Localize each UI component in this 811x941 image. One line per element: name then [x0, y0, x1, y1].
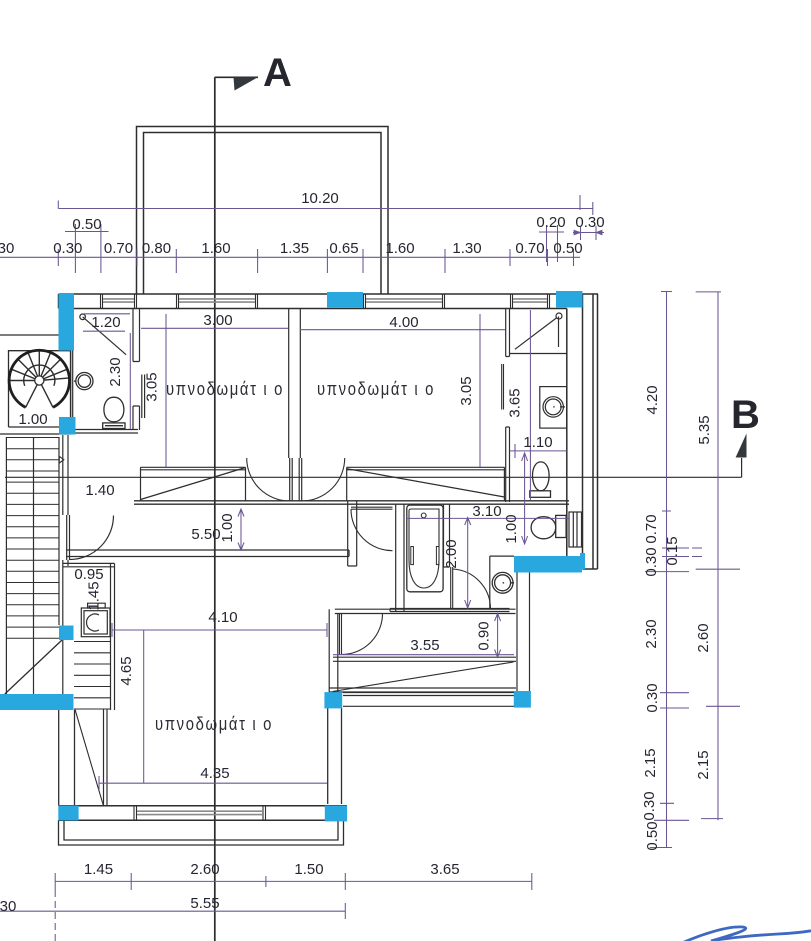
column C8 band	[0, 694, 74, 710]
spiral stair box	[0, 351, 71, 434]
section flag A	[234, 77, 258, 90]
svg-text:2.60: 2.60	[190, 861, 219, 878]
spiral stair inner arc	[24, 365, 55, 386]
window W1 ticks	[101, 294, 137, 309]
right dim line2	[717, 292, 719, 821]
svg-text:4.00: 4.00	[389, 314, 418, 331]
svg-text:υπνοδωμάτ ι ο: υπνοδωμάτ ι ο	[166, 379, 284, 399]
svg-text:4.20: 4.20	[644, 385, 661, 414]
dim 2.00 vline with arrows	[465, 518, 471, 609]
svg-text:1.20: 1.20	[91, 314, 120, 331]
dim 4.65 vline	[143, 630, 145, 783]
svg-text:1.50: 1.50	[294, 861, 323, 878]
svg-text:0.50: 0.50	[644, 821, 661, 850]
upper bathroom shower	[510, 313, 568, 354]
svg-text:30: 30	[0, 240, 14, 257]
svg-text:3.10: 3.10	[472, 503, 501, 520]
window W3 glazing	[366, 299, 442, 302]
dim 0.50 top line	[65, 231, 109, 233]
tub bathroom left wall	[396, 504, 404, 611]
svg-text:1.45: 1.45	[84, 861, 113, 878]
dim 4.10 line	[112, 623, 327, 637]
column C6 band	[514, 556, 582, 573]
dim 2.30 vline	[129, 333, 131, 429]
dim 0.20 line	[539, 225, 564, 262]
column C4	[59, 417, 76, 435]
bathroom1 bottom wall	[72, 430, 138, 434]
hall right wall	[348, 501, 357, 566]
svg-text:30: 30	[0, 898, 16, 915]
dim 3.00 line	[141, 327, 288, 329]
svg-text:10.20: 10.20	[301, 190, 339, 207]
svg-text:3.05: 3.05	[458, 376, 475, 405]
svg-text:2.30: 2.30	[643, 619, 660, 648]
dim 3.55 line	[333, 654, 514, 656]
window W2 glazing	[179, 299, 255, 302]
window W4 glazing	[513, 299, 547, 302]
dim 3.05 bedroom2 vline	[479, 314, 481, 467]
main top dim ticks	[58, 249, 573, 273]
bedroom3 right wall	[328, 708, 342, 804]
spiral stair outer ring	[9, 350, 69, 407]
tub partition right	[444, 504, 450, 567]
room355 bottom wall	[333, 657, 516, 661]
column C12	[325, 806, 347, 822]
svg-text:1.40: 1.40	[85, 482, 114, 499]
spiral stair newel	[35, 376, 44, 385]
bedroom3 bottom wall	[59, 806, 348, 821]
svg-text:3.65: 3.65	[430, 861, 459, 878]
svg-text:5.50: 5.50	[191, 526, 220, 543]
svg-text:3.00: 3.00	[203, 312, 232, 329]
closet2 with diagonal	[347, 467, 505, 501]
svg-text:1.60: 1.60	[201, 240, 230, 257]
svg-text:2.15: 2.15	[695, 750, 712, 779]
svg-text:1.60: 1.60	[385, 240, 414, 257]
bathroom1 toilet	[103, 397, 125, 428]
svg-text:0.30: 0.30	[53, 240, 82, 257]
svg-text:1.00: 1.00	[219, 513, 236, 542]
wall bedroom2/bathroom upper part	[506, 309, 510, 357]
svg-text:A: A	[263, 51, 292, 95]
window W4 ticks	[511, 294, 550, 309]
wc room niche wall	[566, 504, 568, 549]
room355 right wall	[517, 573, 530, 693]
right dim line1 ticks	[645, 292, 689, 848]
dim 3.05 bedroom1 vline	[165, 314, 167, 467]
column C11	[58, 806, 78, 821]
column C10	[514, 691, 531, 708]
window W1 glazing	[103, 299, 134, 302]
terrace strip bottom wall	[329, 688, 516, 692]
section line A vertical	[215, 77, 258, 941]
svg-text:5.35: 5.35	[696, 415, 713, 444]
dim 4.35 line	[99, 776, 327, 790]
door arc left	[247, 458, 290, 501]
top wall outer and inner lines	[59, 294, 599, 309]
dim 0.50 ticks	[75, 224, 101, 273]
upper bathroom toilet	[530, 462, 551, 497]
bathroom1 sink	[74, 373, 93, 390]
svg-text:0.70: 0.70	[515, 240, 544, 257]
bottom balcony border	[59, 820, 344, 845]
dim 0.30 right arrows	[574, 230, 602, 235]
dim 10.20 line	[58, 201, 593, 216]
svg-text:0.30: 0.30	[575, 214, 604, 231]
svg-text:0.90: 0.90	[476, 621, 493, 650]
spiral stair treads	[9, 350, 69, 407]
svg-text:1.00: 1.00	[503, 514, 520, 543]
tub bathroom door	[451, 567, 491, 609]
door arc right	[302, 458, 345, 501]
column C2	[327, 292, 363, 308]
svg-text:3.05: 3.05	[144, 372, 161, 401]
wall bedroom2/wc lower part	[506, 427, 510, 502]
stair arrival diagonal	[75, 709, 104, 806]
column C7	[59, 626, 74, 641]
corridor bottom wall band	[134, 501, 569, 504]
svg-text:2.00: 2.00	[443, 539, 460, 568]
dim 0.15 marks	[692, 548, 702, 557]
dim 0.90 vline with arrows	[495, 614, 501, 658]
dim 0.30 right line	[573, 226, 604, 240]
svg-text:1.10: 1.10	[523, 434, 552, 451]
bathroom1 shower corner diagonal	[80, 314, 126, 355]
bottom dim row2 line	[0, 910, 345, 912]
dim 3.65 vline	[529, 310, 531, 500]
main top dim line	[0, 256, 580, 258]
svg-text:0.50: 0.50	[553, 240, 582, 257]
washbasin counter	[490, 556, 514, 608]
section flag B	[736, 434, 747, 458]
section line B horizontal	[5, 458, 742, 477]
room355 left wall	[329, 609, 338, 692]
svg-text:4.35: 4.35	[200, 765, 229, 782]
vestibule door	[351, 507, 393, 551]
svg-text:4.10: 4.10	[208, 609, 237, 626]
svg-text:3.65: 3.65	[507, 388, 524, 417]
window W2 ticks	[177, 294, 258, 309]
tub bathroom bottom wall	[390, 609, 510, 612]
svg-text:0.80: 0.80	[142, 240, 171, 257]
stair cut diagonal	[5, 640, 62, 694]
dim 3.10 line	[406, 517, 569, 519]
washing machine	[81, 603, 110, 637]
bedroom3 window glazing	[137, 811, 263, 814]
right dim line1	[666, 291, 668, 848]
bottom dim row1 ticks	[55, 873, 532, 890]
svg-text:0.95: 0.95	[74, 566, 103, 583]
svg-text:1.30: 1.30	[452, 240, 481, 257]
bedroom3 window ticks	[134, 806, 266, 821]
svg-text:1.45: 1.45	[86, 581, 103, 610]
svg-text:1.00: 1.00	[18, 411, 47, 428]
svg-text:υπνοδωμάτ ι ο: υπνοδωμάτ ι ο	[155, 714, 273, 734]
upper bathroom sink unit	[540, 387, 567, 429]
svg-text:B: B	[731, 393, 760, 437]
dim 1.20 lines	[83, 314, 130, 331]
svg-text:1.35: 1.35	[280, 240, 309, 257]
bottom dim row1 line	[55, 880, 532, 882]
column C1	[59, 293, 75, 351]
bedroom3 inner left wall	[104, 709, 108, 806]
double door leaves corridor	[290, 458, 302, 501]
svg-text:0.50: 0.50	[72, 216, 101, 233]
right dim line2 ticks	[696, 292, 740, 819]
svg-text:0.30: 0.30	[643, 547, 660, 576]
window W3 ticks	[364, 294, 445, 309]
signature	[682, 927, 811, 941]
svg-text:υπνοδωμάτ ι ο: υπνοδωμάτ ι ο	[317, 379, 435, 399]
svg-text:5.55: 5.55	[190, 895, 219, 912]
room355 top wall	[335, 609, 516, 613]
dim 1.00 hall vline with arrows	[238, 509, 244, 550]
svg-text:0.20: 0.20	[536, 214, 565, 231]
svg-text:0.65: 0.65	[329, 240, 358, 257]
svg-text:0.30: 0.30	[644, 683, 661, 712]
balcony top outer rect	[137, 127, 389, 295]
hall entry door	[67, 515, 114, 560]
bottom dashed tick	[54, 890, 56, 941]
bottom dim row2 ticks	[344, 903, 346, 919]
parapet between cyan columns bottom	[343, 693, 514, 707]
wall bedroom1/bedroom2	[289, 309, 301, 459]
svg-text:2.30: 2.30	[107, 357, 124, 386]
right wall lines	[567, 294, 598, 569]
column C9	[324, 692, 342, 708]
sliding door leaf bathroom upper	[502, 364, 504, 410]
bathtub	[407, 505, 443, 592]
room355 door	[340, 614, 383, 655]
dim 4.00 line	[300, 329, 505, 331]
svg-text:3.55: 3.55	[410, 637, 439, 654]
dim 1.00 wc vline with arrows	[524, 453, 526, 544]
svg-text:2.15: 2.15	[642, 748, 659, 777]
utility right wall	[111, 563, 115, 710]
radiator niche	[569, 512, 582, 547]
svg-text:0.70: 0.70	[643, 514, 660, 543]
interior stair steps	[74, 642, 111, 710]
corridor left wall with door opening	[63, 435, 68, 694]
svg-text:4.65: 4.65	[118, 656, 135, 685]
bathroom1 right wall with door gap	[133, 309, 145, 431]
utility top wall	[63, 563, 115, 566]
column C5 sliver	[580, 553, 585, 569]
stair steps	[6, 438, 59, 639]
washbasin circle	[492, 572, 514, 593]
entry arrow marker	[59, 456, 64, 463]
tick above 0.30	[579, 195, 581, 210]
hall bottom wall	[66, 550, 349, 557]
bathroom1 left wall	[71, 351, 73, 418]
svg-text:2.60: 2.60	[695, 623, 712, 652]
svg-text:0.70: 0.70	[104, 240, 133, 257]
column C3	[556, 291, 583, 308]
svg-text:0.15: 0.15	[664, 536, 681, 565]
terrace strip diagonal	[333, 662, 514, 692]
closet1 with diagonal	[141, 467, 246, 501]
bedroom3 left exterior wall	[59, 710, 75, 806]
stair rails	[6, 437, 59, 694]
landing edge line top left	[0, 334, 59, 336]
dim 1.10 line	[510, 444, 567, 458]
svg-text:0.30: 0.30	[641, 791, 658, 820]
wc toilet	[531, 515, 566, 538]
